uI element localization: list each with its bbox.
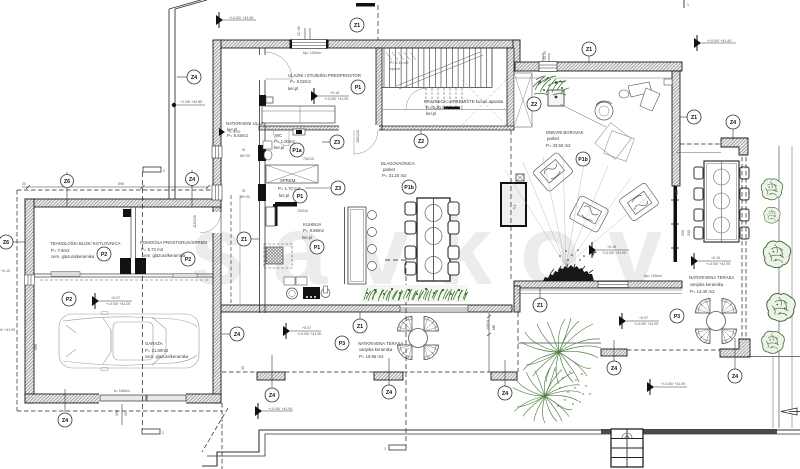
- dining chairs left: [405, 202, 416, 215]
- svg-text:P= 1.00m2: P= 1.00m2: [274, 139, 296, 144]
- swivel chair: [595, 102, 613, 120]
- garage wall left: [25, 199, 34, 403]
- svg-text:590: 590: [118, 182, 124, 186]
- svg-text:P= 9.02m2: P= 9.02m2: [290, 79, 312, 84]
- flag south terrace: [283, 323, 321, 339]
- green strip south of dining: [362, 285, 468, 302]
- svg-text:šp= 100cm: šp= 100cm: [303, 51, 321, 55]
- wall step south: [514, 286, 520, 312]
- svg-text:P= 19.95 m2: P= 19.95 m2: [359, 354, 384, 359]
- big palm 1: [521, 318, 601, 384]
- svg-text:SI: SI: [242, 189, 245, 193]
- kitchen east wall: [344, 207, 346, 284]
- svg-text:ker.pl: ker.pl: [426, 111, 436, 116]
- svg-text:ker.pl: ker.pl: [279, 193, 289, 198]
- svg-text:Z4: Z4: [732, 374, 738, 380]
- svg-text:SI: SI: [242, 148, 245, 152]
- shelf boiler room: [51, 272, 80, 277]
- dashed right terrace top: [680, 143, 721, 145]
- svg-text:+/-0.00/ +41.90: +/-0.00/ +41.90: [268, 407, 292, 411]
- wall south dining/kitchen: [221, 305, 512, 312]
- axis circles P: [62, 80, 684, 350]
- flag garage: [92, 293, 132, 309]
- light rays: [505, 155, 652, 266]
- window south dining: [400, 305, 468, 312]
- section tick top right: [683, 0, 685, 8]
- svg-text:P2: P2: [185, 257, 191, 263]
- svg-text:40 40: 40 40: [543, 51, 547, 60]
- svg-text:+/-0.00/ +41.90: +/-0.00/ +41.90: [661, 382, 685, 386]
- svg-text:P= 7.8m2: P= 7.8m2: [51, 248, 70, 253]
- kitchen tap circle: [321, 289, 330, 298]
- svg-text:P2: P2: [66, 297, 72, 303]
- svg-text:P1: P1: [355, 85, 361, 91]
- axis circles Z: [0, 42, 742, 402]
- svg-text:PRAONICA I SPREMIŠTE kućan.apa: PRAONICA I SPREMIŠTE kućan.aparata: [424, 99, 504, 104]
- kitchen counter top black: [275, 202, 297, 207]
- flag right terrace: [691, 253, 731, 269]
- svg-text:P= 13.40 m2: P= 13.40 m2: [690, 289, 715, 294]
- svg-text:Z1: Z1: [691, 115, 697, 121]
- TV wall: [501, 183, 526, 226]
- west wall door to storage: [212, 212, 222, 233]
- kerb inner: [207, 434, 800, 456]
- svg-text:+0.07: +0.07: [639, 316, 648, 320]
- svg-text:80+20: 80+20: [240, 154, 250, 158]
- svg-text:sprem.: sprem.: [390, 67, 401, 71]
- terrace south step line: [518, 342, 601, 344]
- svg-text:Z3: Z3: [335, 186, 341, 192]
- svg-text:200: 200: [681, 230, 685, 236]
- dashed grid line 1: [405, 260, 407, 446]
- right edge arrow: [781, 408, 797, 415]
- svg-text:185/210: 185/210: [356, 130, 360, 143]
- garage door opening: [99, 393, 186, 404]
- balcony edge lines above: [168, 9, 170, 199]
- svg-text:P= 31.20 m2: P= 31.20 m2: [382, 173, 407, 178]
- sparkle star: [589, 248, 597, 256]
- garage west wall window: [25, 275, 35, 285]
- svg-text:NATKRIVENI ULAZ: NATKRIVENI ULAZ: [226, 121, 264, 126]
- glass wall east: [674, 186, 678, 262]
- svg-text:P= 9.59m2: P= 9.59m2: [303, 228, 325, 233]
- svg-text:30: 30: [241, 366, 245, 370]
- stair corridor line: [382, 109, 507, 111]
- svg-text:WC: WC: [275, 133, 282, 138]
- svg-text:+/-0.00/ +41.90: +/-0.00/ +41.90: [602, 251, 626, 255]
- dashed overhang garage: [17, 190, 228, 469]
- L wall right terrace bottom: [720, 339, 750, 357]
- svg-text:606: 606: [34, 344, 38, 350]
- corner box living NE: [664, 79, 672, 85]
- svg-text:236+8: 236+8: [486, 320, 490, 330]
- svg-text:75/210: 75/210: [303, 157, 314, 161]
- armchair C: [618, 182, 659, 222]
- svg-text:Z2: Z2: [418, 139, 424, 145]
- flag right terrace 2: [619, 313, 659, 329]
- dashed right terrace east edge: [741, 157, 743, 339]
- svg-text:Z4: Z4: [62, 418, 68, 424]
- svg-text:+/-0.00/ +41.90: +/-0.00/ +41.90: [297, 332, 321, 336]
- svg-text:Z4: Z4: [611, 366, 617, 372]
- svg-text:+/-0.00/ +41.90: +/-0.00/ +41.90: [324, 97, 348, 101]
- kitchen fridge: [266, 207, 275, 226]
- svg-text:+1.25/ +42.85: +1.25/ +42.85: [180, 100, 202, 104]
- svg-text:Z1: Z1: [357, 324, 363, 330]
- wall stair south: [382, 126, 514, 130]
- car: [59, 312, 199, 371]
- axis circle leaders: [13, 56, 735, 388]
- right terrace edge lines: [778, 146, 780, 428]
- svg-text:2: 2: [163, 169, 165, 173]
- dashed grid line 2: [142, 172, 144, 430]
- svg-text:P3: P3: [674, 314, 680, 320]
- flag entry top: [216, 12, 256, 28]
- laundry room X: [462, 80, 506, 125]
- living inner wall face line: [515, 77, 672, 79]
- wall top main: [216, 40, 520, 48]
- window top living: [539, 62, 557, 72]
- stair first tread bold: [444, 107, 460, 110]
- svg-text:TV: TV: [512, 204, 517, 209]
- svg-text:ME: ME: [492, 324, 496, 330]
- svg-text:1: 1: [687, 3, 689, 7]
- svg-text:P1a: P1a: [292, 148, 301, 154]
- svg-text:+0.15: +0.15: [607, 245, 616, 249]
- svg-text:cem. glazura/keramika: cem. glazura/keramika: [142, 253, 186, 258]
- wall west facade: [213, 40, 221, 203]
- wall stair west: [376, 48, 382, 128]
- palm speckles: [555, 369, 590, 406]
- svg-text:ker.pl: ker.pl: [302, 235, 312, 240]
- svg-text:30: 30: [124, 412, 128, 416]
- kitchen island dashed: [264, 244, 292, 268]
- svg-text:P2: P2: [101, 252, 107, 258]
- svg-text:Z6: Z6: [3, 240, 9, 246]
- svg-text:BLAGOVAONICA: BLAGOVAONICA: [381, 161, 415, 166]
- wall top living: [515, 62, 682, 71]
- right terrace thin line: [677, 152, 721, 154]
- svg-text:P1: P1: [297, 194, 303, 200]
- wc fixtures: [263, 141, 272, 149]
- wall south living: [514, 281, 682, 288]
- armchair B: [569, 195, 609, 233]
- svg-text:P3: P3: [339, 341, 345, 347]
- columns south terrace row: [257, 372, 285, 380]
- room texts: [50, 73, 734, 359]
- svg-text:P= 1.70 m2: P= 1.70 m2: [278, 186, 301, 191]
- exterior stairs bottom: [611, 429, 643, 467]
- garage axis leader + Z4 bottom: [64, 389, 66, 412]
- svg-text:ULAZNI I STUBIŠNI PREDPROSTOR: ULAZNI I STUBIŠNI PREDPROSTOR: [288, 73, 361, 78]
- kerb dark band right: [601, 429, 777, 434]
- window top entry: [291, 40, 327, 49]
- storage room X box: [266, 165, 318, 183]
- svg-text:P1: P1: [314, 245, 320, 251]
- svg-text:Z2: Z2: [531, 102, 537, 108]
- bar counter: [348, 207, 366, 284]
- svg-text:POMOĆNA PROSTORIJA/SPREM: POMOĆNA PROSTORIJA/SPREM: [140, 240, 207, 245]
- entry door swing: [265, 52, 292, 79]
- svg-text:vanjska keramika: vanjska keramika: [690, 282, 724, 287]
- level flags: [92, 12, 736, 419]
- svg-text:+/-0.00/ +41.90: +/-0.00/ +41.90: [634, 322, 658, 326]
- small texts: [0, 51, 662, 393]
- flag entry mid: [311, 88, 349, 104]
- svg-text:+/-0.00/ +41.90: +/-0.00/ +41.90: [706, 262, 730, 266]
- svg-text:parket: parket: [547, 136, 560, 141]
- TV small box: [516, 174, 524, 181]
- svg-text:+0.10: +0.10: [711, 256, 720, 260]
- flag top right: [694, 35, 736, 51]
- section bar top: [356, 3, 375, 7]
- svg-text:DNEVNI BORAVAK: DNEVNI BORAVAK: [546, 130, 584, 135]
- east outdoor dining table: [704, 161, 739, 242]
- kitchen lower counter boxes: [284, 277, 295, 285]
- entry small box: [266, 97, 273, 103]
- stair lower dashed treads: [426, 88, 465, 109]
- kitchen cooktop black: [303, 287, 320, 299]
- svg-text:parket: parket: [383, 167, 396, 172]
- svg-text:20: 20: [22, 182, 26, 186]
- shaft X between stair and living: [514, 73, 532, 127]
- stair break line: [396, 52, 480, 86]
- svg-text:75/210: 75/210: [297, 209, 308, 213]
- svg-text:šp= 100cm: šp= 100cm: [644, 274, 662, 278]
- svg-text:P= 2.14 m2: P= 2.14 m2: [390, 61, 408, 65]
- vent box corridor: [293, 129, 305, 135]
- corner plant living: [533, 76, 569, 95]
- svg-text:P= 8.45m2: P= 8.45m2: [227, 133, 249, 138]
- svg-text:200: 200: [687, 230, 691, 236]
- stair closet slats: [386, 52, 416, 60]
- trees right column: [761, 179, 783, 200]
- column terrace right-south: [601, 349, 627, 356]
- east table chairs: [694, 167, 749, 239]
- svg-text:ME: ME: [675, 189, 679, 195]
- svg-text:vanjska keramika: vanjska keramika: [359, 347, 393, 352]
- dim line garage top: [22, 186, 208, 188]
- staircase treads: [384, 48, 487, 87]
- round table south terrace: [409, 329, 428, 348]
- svg-text:š= 165cm: š= 165cm: [114, 389, 130, 393]
- wall west garage-right: [213, 203, 221, 403]
- entry closet: [262, 106, 335, 123]
- svg-text:P= 21.80m2: P= 21.80m2: [145, 348, 169, 353]
- svg-text:+/-0.00/ +41.90: +/-0.00/ +41.90: [229, 16, 253, 20]
- svg-text:80+20: 80+20: [240, 195, 250, 199]
- svg-text:ker.pl: ker.pl: [288, 86, 298, 91]
- wall stair east: [507, 48, 514, 128]
- svg-text:P= 33.50 m2: P= 33.50 m2: [546, 143, 571, 148]
- stair handrail line: [382, 87, 492, 89]
- svg-text:Z4: Z4: [191, 75, 197, 81]
- wall entry south corridor: [259, 126, 382, 130]
- wall step right of top: [513, 40, 520, 71]
- dashed line TV axis: [510, 130, 512, 281]
- west wall windows: [212, 146, 222, 200]
- dining chairs right: [448, 202, 459, 215]
- svg-text:P1b: P1b: [578, 157, 588, 163]
- svg-text:+0.07: +0.07: [111, 296, 120, 300]
- dashed covered entry: [230, 195, 232, 305]
- axis marker 2 bottom: [142, 429, 160, 434]
- terrace edge lines below living: [517, 289, 682, 291]
- garage wall bottom: [25, 394, 221, 403]
- svg-text:Z1: Z1: [354, 23, 360, 29]
- svg-text:ker.pl: ker.pl: [274, 145, 284, 150]
- wc door arc: [273, 130, 289, 146]
- flag below right terrace: [647, 379, 687, 395]
- understair door arc: [406, 88, 427, 109]
- dashed top section line: [377, 5, 379, 40]
- garage wall top: [25, 199, 221, 207]
- svg-text:Z1: Z1: [537, 303, 543, 309]
- svg-text:P1b: P1b: [404, 185, 414, 191]
- svg-text:115/230: 115/230: [193, 215, 197, 228]
- L wall right terrace top: [721, 138, 748, 155]
- svg-text:Z6: Z6: [64, 179, 70, 185]
- kitchen island tiled: [266, 247, 283, 264]
- flag living bottom: [589, 242, 629, 258]
- dashed terrace edge: [517, 312, 519, 372]
- fireplace box: [548, 90, 564, 106]
- svg-text:Z3: Z3: [334, 140, 340, 146]
- axis marker 1 bottom: [389, 445, 406, 450]
- svg-text:Z4: Z4: [234, 332, 240, 338]
- svg-text:300: 300: [115, 410, 119, 416]
- round table SE terrace: [707, 312, 726, 331]
- svg-text:Z1: Z1: [241, 237, 247, 243]
- axis marker 2 top: [143, 167, 161, 172]
- svg-text:Z4: Z4: [730, 120, 736, 126]
- svg-text:cem. glazura/keramika: cem. glazura/keramika: [145, 354, 189, 359]
- svg-text:SPREM.: SPREM.: [280, 178, 296, 183]
- dining door arc: [354, 130, 378, 154]
- svg-text:1C 08: 1C 08: [297, 26, 301, 36]
- svg-text:cem. glazura/keramika: cem. glazura/keramika: [51, 254, 95, 259]
- svg-text:KUHINJA: KUHINJA: [303, 222, 322, 227]
- big palm 2: [513, 367, 581, 423]
- sofa corner NE: [619, 82, 660, 111]
- armchair A: [532, 152, 573, 192]
- svg-text:ker.pl: ker.pl: [227, 127, 237, 132]
- small entry level: [219, 128, 225, 136]
- black mound plant: [543, 265, 594, 281]
- svg-text:Z4: Z4: [502, 391, 508, 397]
- kerb outer: [202, 430, 800, 466]
- garage interior partition wall: [34, 273, 213, 275]
- window south living: [598, 282, 628, 288]
- svg-text:TEHNOLOŠKI BLOK/ KOTLOVNICA: TEHNOLOŠKI BLOK/ KOTLOVNICA: [50, 241, 121, 246]
- axis circle Z1 top: [350, 18, 364, 32]
- dashed column row south: [222, 371, 257, 373]
- svg-text:NATKRIVENA TERASA: NATKRIVENA TERASA: [358, 341, 403, 346]
- wall east living: [672, 71, 680, 186]
- svg-text:P= 5.73 m2: P= 5.73 m2: [141, 247, 164, 252]
- svg-text:Z4: Z4: [189, 177, 195, 183]
- svg-text:1: 1: [384, 447, 386, 451]
- svg-text:+0.15: +0.15: [330, 91, 339, 95]
- svg-text:+/-0.00/ +41.90: +/-0.00/ +41.90: [707, 39, 731, 43]
- rug rotated squares: [595, 123, 635, 162]
- svg-text:P= 5.10 m2: P= 5.10 m2: [426, 105, 449, 110]
- svg-text:Z4: Z4: [386, 390, 392, 396]
- bar stools: [368, 211, 377, 220]
- svg-text:+0.10: +0.10: [1, 269, 10, 273]
- svg-text:Z4: Z4: [269, 393, 275, 399]
- window ticks top entry: [304, 28, 306, 39]
- dot level upper left: [172, 103, 176, 107]
- svg-text:0/ +41.90: 0/ +41.90: [0, 328, 15, 332]
- svg-text:GARAŽA: GARAŽA: [145, 341, 163, 346]
- flag below garage: [255, 403, 293, 419]
- svg-text:2: 2: [162, 431, 164, 435]
- terrace dim line vertical: [488, 313, 490, 372]
- svg-text:Z1: Z1: [586, 47, 592, 53]
- dashed column row SE: [627, 349, 720, 351]
- wall kitchen west: [259, 48, 261, 55]
- svg-text:+0.07: +0.07: [302, 326, 311, 330]
- svg-text:NATKRIVENA TERASA: NATKRIVENA TERASA: [689, 275, 734, 280]
- kitchen sink: [287, 288, 298, 299]
- svg-text:+/-0.00/ +41.00: +/-0.00/ +41.00: [106, 302, 130, 306]
- shelf storage room: [173, 274, 197, 278]
- dining table: [417, 198, 450, 281]
